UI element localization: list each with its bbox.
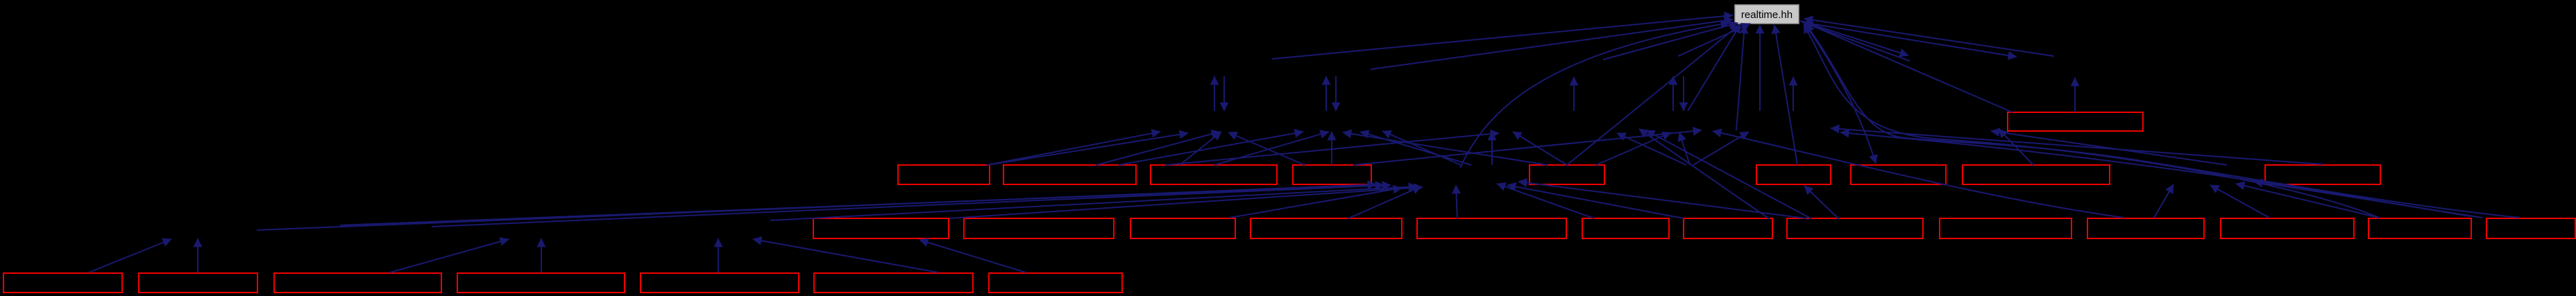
edge far right to R2e second [1840, 132, 2471, 216]
edge C4 to R2a [1228, 132, 1305, 165]
edge R1b to root [1371, 19, 1733, 69]
edge E6 to HD3 [753, 239, 938, 272]
edge D12 to root [1804, 24, 2379, 218]
edge C4 to R2d [1353, 130, 1702, 165]
node E6 [814, 273, 973, 293]
node B1 [2008, 112, 2143, 131]
edge R1e to root return [1804, 23, 1910, 61]
edge H to R2c vertical [1491, 132, 1493, 165]
edge D13 to root [1806, 24, 2519, 218]
edge C5 to root [1567, 25, 1739, 165]
node D12 [2369, 218, 2471, 238]
edge HC2 ray up-left [1617, 133, 1686, 165]
edge C1 to R2a [987, 132, 1160, 165]
edge C3 to R2c [1166, 133, 1499, 165]
node C6 [1756, 165, 1831, 184]
edge under-root up [1793, 77, 1794, 111]
edge HD1 to C4 long [257, 184, 1376, 230]
edge D8 to C6 [1804, 186, 1839, 219]
edge C3 to R2a [1180, 132, 1221, 165]
node C5 [1529, 165, 1604, 184]
edge lower-left to root [1688, 24, 1740, 111]
edge C5 to R2d [1596, 132, 1671, 165]
node D3 [1130, 218, 1235, 238]
edge R1a to R2a down [1223, 76, 1225, 111]
svg-text:realtime.hh: realtime.hh [1741, 9, 1793, 21]
edge C5 to R2c [1513, 132, 1567, 165]
edge D10 to H4 [2154, 184, 2173, 218]
node C9 [2265, 165, 2380, 184]
edge D8 to R2d [1646, 130, 1812, 219]
edge HD3 to H [770, 186, 1417, 220]
node root realtime.hh [1735, 5, 1799, 24]
edge D13 to H4 [2254, 182, 2482, 218]
edge D1 to H [949, 187, 1423, 218]
edge H to R2b [1360, 132, 1471, 165]
node C7 [1851, 165, 1946, 184]
edge C5 to R2b [1343, 132, 1548, 165]
edge D3 to H [1230, 188, 1402, 218]
edge root curve to C7 [1806, 25, 1876, 164]
edge C9 to R2e [1831, 128, 2323, 164]
edge R1d to root [1678, 24, 1750, 56]
edge HC2 to R2d [1679, 132, 1690, 165]
edge E4 to HD2 vertical [541, 238, 542, 272]
edge E1 to HD1 [89, 239, 171, 272]
edge HD2 to C4 long [432, 185, 1391, 227]
edge C2 to R2a [1096, 132, 1220, 165]
edge R1d to R2d down [1683, 76, 1684, 111]
edge C2 to R2b [1119, 132, 1303, 165]
edge D10 to R2d [1713, 131, 2124, 218]
edge H4 to R2f [1991, 131, 2227, 165]
edge below to root vertical-b [1759, 25, 1761, 111]
node C3 [1151, 165, 1277, 184]
edge E7 to D1 [920, 240, 1026, 272]
edge B1 to root [1802, 21, 2012, 112]
edge C4 to R2b vertical [1331, 132, 1332, 165]
edge R1a to root [1272, 15, 1733, 59]
node D2 [964, 218, 1114, 238]
edge B1 to R1f vertical [2074, 78, 2076, 112]
edge R2c to R1c up [1573, 77, 1575, 111]
edge D7 to H [1507, 185, 1684, 218]
edge root to R1f [1802, 22, 2017, 57]
edge C8 to R2f [1999, 129, 2033, 165]
node C2 [1003, 165, 1136, 184]
node E4 [457, 273, 625, 293]
edge R1b to R2b down [1335, 76, 1337, 111]
node D6 [1582, 218, 1669, 238]
node E7 [989, 273, 1122, 293]
node E2 [139, 273, 257, 293]
node E1 [3, 273, 122, 293]
edge C3 to R2b [1214, 132, 1329, 165]
edge R1c to root [1603, 23, 1738, 60]
node C1 [898, 165, 990, 184]
edge root to R1e [1800, 21, 1908, 55]
node D11 [2221, 218, 2354, 238]
edge HC2 ray up-right [1693, 132, 1749, 165]
edge C1 to R2a second [988, 133, 1188, 165]
node D8 [1787, 218, 1923, 238]
edge below to root vertical-a [1736, 25, 1745, 130]
edge E2 to HD1 vertical [197, 238, 198, 272]
edge below-right to root [1774, 25, 1797, 165]
edge D8 to H long [1518, 182, 1806, 218]
edge D11 to H4 [2210, 185, 2269, 218]
edge E3 to HD2 [390, 239, 509, 272]
edge D4 to H [1348, 186, 1421, 218]
edge R2d to R1d up [1672, 76, 1674, 111]
edge D12 to H4 [2236, 184, 2379, 218]
edge D7 to R2d [1639, 129, 1770, 219]
node D4 [1251, 218, 1402, 238]
edge R1f to root [1804, 19, 2054, 56]
edge left long to H [340, 185, 1384, 225]
node D5 [1417, 218, 1566, 238]
node D1 [813, 218, 949, 238]
node C8 [1963, 165, 2110, 184]
node D9 [1940, 218, 2071, 238]
edge R2b to R1b up [1325, 76, 1327, 111]
edge hub H curve to root [1460, 23, 1729, 168]
node D13 [2486, 218, 2575, 238]
edge E5 to HD3 vertical [718, 238, 719, 272]
edge R2a to R1a up [1214, 76, 1215, 111]
node E3 [274, 273, 441, 293]
edge D5 to H vertical [1456, 185, 1457, 219]
node C4 [1293, 165, 1371, 184]
edge D6 to H [1497, 184, 1594, 218]
node E5 [641, 273, 799, 293]
edge H to R2b second [1382, 131, 1461, 165]
node D10 [2087, 218, 2204, 238]
node D7 [1684, 218, 1772, 238]
